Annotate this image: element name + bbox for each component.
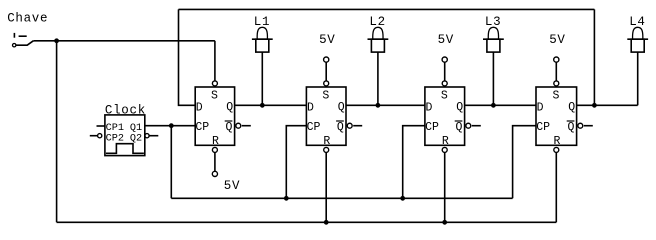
wire clock riser FF4 CP: [513, 126, 536, 199]
svg-text:Chave: Chave: [7, 11, 48, 25]
svg-text:S: S: [441, 89, 448, 102]
lamp L3: [483, 15, 504, 52]
pin CP2 bubble and stub: [90, 135, 98, 137]
wire Q3 to D4: [465, 104, 536, 106]
junction Q4 node: [592, 103, 597, 108]
pulse waveform symbol: [106, 144, 144, 154]
svg-text:CP: CP: [195, 121, 209, 134]
svg-text:D: D: [537, 102, 544, 115]
5V terminal above FF2 S: [319, 33, 335, 81]
junction lamp L2 tap: [376, 103, 381, 108]
junction clock rail FF2: [284, 196, 289, 201]
svg-text:Q: Q: [456, 101, 463, 114]
wire lamp L3 drop: [492, 52, 494, 105]
svg-text:S: S: [322, 89, 329, 102]
svg-text:CP2: CP2: [106, 133, 124, 144]
wire riser to FF3 R: [444, 152, 446, 222]
5V pull terminal below FF1 R: [212, 153, 240, 193]
svg-text:Q: Q: [338, 101, 345, 114]
wire riser to FF4 R: [555, 152, 557, 222]
flip-flop FF1: [195, 81, 251, 152]
wire clock riser FF2 CP: [286, 126, 306, 199]
svg-text:Q: Q: [568, 101, 575, 114]
svg-text:R: R: [212, 135, 219, 148]
switch S1 (Chave): [13, 33, 34, 47]
svg-text:Q2: Q2: [130, 133, 142, 144]
svg-text:Q: Q: [226, 101, 233, 114]
wire lamp L1 drop: [261, 52, 263, 105]
lamp L2: [368, 15, 389, 52]
lamp L1: [252, 15, 273, 52]
svg-text:CP: CP: [425, 121, 439, 134]
wire top feedback rail Q4 to D1: [179, 8, 595, 10]
pin CP1 stub: [97, 125, 105, 127]
wire clock riser FF3 CP: [403, 126, 425, 199]
svg-text:CP: CP: [536, 121, 550, 134]
clock generator U1: [90, 104, 159, 156]
svg-text:Q: Q: [337, 121, 344, 134]
svg-text:D: D: [426, 102, 433, 115]
svg-text:D: D: [196, 102, 203, 115]
junction clock rail FF3: [400, 196, 405, 201]
wire lamp L4 drop: [637, 52, 639, 105]
wire clock rail: [171, 197, 512, 199]
junction lamp L3 tap: [491, 103, 496, 108]
wire switch column down: [56, 41, 58, 223]
wire riser to FF2 R: [325, 152, 327, 222]
svg-text:5V: 5V: [438, 33, 454, 47]
junction FF3 R on rail: [442, 220, 447, 225]
svg-text:S: S: [552, 89, 559, 102]
wire bottom reset rail: [57, 221, 557, 223]
wire switch to S1 set input (node SET): [33, 40, 215, 42]
pin Q2 bubble and stub: [145, 134, 149, 138]
flip-flop FF3: [425, 81, 481, 152]
wire Q2 to D3: [346, 104, 425, 106]
junction clock distribution: [169, 123, 174, 128]
svg-text:Q: Q: [225, 121, 232, 134]
flip-flop FF4: [536, 81, 593, 152]
wire lamp L2 drop: [377, 52, 379, 105]
svg-text:Q: Q: [567, 121, 574, 134]
5V terminal above FF3 S: [438, 33, 454, 81]
wire Q4 to lamp L4: [577, 104, 638, 106]
wire left drop to D1: [179, 9, 196, 105]
wire right drop from Q4: [593, 9, 595, 105]
svg-text:R: R: [442, 135, 449, 148]
lamp L4: [627, 15, 648, 52]
svg-text:5V: 5V: [549, 33, 565, 47]
svg-text:R: R: [323, 135, 330, 148]
svg-text:5V: 5V: [319, 33, 335, 47]
wire Q1 to D2: [235, 104, 307, 106]
wire drop to FF1 S bubble: [214, 41, 216, 81]
junction lamp L1 tap: [260, 103, 265, 108]
svg-text:D: D: [307, 102, 314, 115]
wire Clock Q1 to FF1 CP: [145, 125, 195, 127]
svg-text:S: S: [211, 89, 218, 102]
junction switch column: [54, 38, 59, 43]
flip-flop FF2: [306, 81, 362, 152]
wire clock drop: [170, 126, 172, 199]
svg-text:Q: Q: [455, 121, 462, 134]
svg-text:R: R: [553, 135, 560, 148]
5V terminal above FF4 S: [549, 33, 565, 81]
svg-text:5V: 5V: [224, 179, 240, 193]
junction FF2 R on rail: [324, 220, 329, 225]
svg-text:CP: CP: [307, 121, 321, 134]
